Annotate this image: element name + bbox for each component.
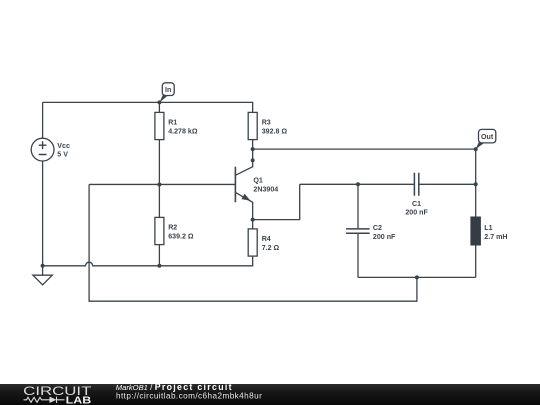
label C1 200 nF xyxy=(405,200,428,217)
wire output rail xyxy=(253,148,476,150)
wire R1 top lead xyxy=(158,102,160,112)
transistor Q1 base bar xyxy=(234,167,236,203)
wire bottom tank rail xyxy=(358,276,476,278)
voltage source V1 Vcc xyxy=(31,138,54,161)
node base-divider junction xyxy=(157,182,161,186)
svg-text:639.2 Ω: 639.2 Ω xyxy=(168,232,194,240)
logo diode triangle xyxy=(50,397,57,403)
svg-text:In: In xyxy=(165,86,171,94)
svg-text:R1: R1 xyxy=(168,118,177,126)
wire Q1 collector pin xyxy=(235,160,252,175)
svg-text:C1: C1 xyxy=(412,200,421,208)
svg-text:5 V: 5 V xyxy=(57,151,68,159)
resistor R4 xyxy=(248,229,257,256)
svg-text:392.8 Ω: 392.8 Ω xyxy=(262,127,288,135)
wire C2 bottom lead xyxy=(357,233,359,277)
node C1 right junction xyxy=(474,182,478,186)
node C2 top junction xyxy=(356,182,360,186)
wire C2 top lead xyxy=(357,184,359,228)
label Vcc 5 V xyxy=(57,142,70,159)
label R2 639.2 Ohm xyxy=(168,223,194,240)
wire Vcc top lead xyxy=(42,102,44,138)
node tank bottom junction xyxy=(415,275,419,279)
wire L1 bottom lead xyxy=(475,245,477,278)
wire R2 bottom lead xyxy=(158,245,160,266)
svg-text:4.278 kΩ: 4.278 kΩ xyxy=(168,127,198,135)
footer bar xyxy=(0,384,540,405)
wire top rail xyxy=(43,102,253,112)
wire C1 right lead xyxy=(419,183,476,185)
label L1 2.7 mH xyxy=(484,224,507,241)
wire Q1 base xyxy=(89,183,235,185)
node In junction xyxy=(157,100,161,104)
svg-text:200 nF: 200 nF xyxy=(405,209,428,217)
node R2 ground junction xyxy=(157,264,161,268)
svg-text:7.2 Ω: 7.2 Ω xyxy=(262,244,280,252)
wire emitter to R4 xyxy=(252,220,254,229)
svg-text:200 nF: 200 nF xyxy=(373,233,396,241)
svg-text:R3: R3 xyxy=(262,118,271,126)
svg-text:Q1: Q1 xyxy=(253,176,263,184)
svg-text:http://circuitlab.com/c6ha2mbk: http://circuitlab.com/c6ha2mbk4h8ur xyxy=(116,392,262,401)
node flag In xyxy=(159,83,174,103)
wire R3 bottom lead xyxy=(252,140,254,161)
wire Out drop to L1 xyxy=(475,149,477,217)
svg-text:L1: L1 xyxy=(484,224,492,232)
wire ground rail with hop over feedback wire xyxy=(43,257,253,266)
ground xyxy=(33,266,52,285)
wire Q1 emitter pin xyxy=(235,192,252,219)
wire feedback loop left and bottom xyxy=(89,184,417,301)
svg-text:C2: C2 xyxy=(373,224,382,232)
resistor R2 xyxy=(155,217,164,244)
node Out flag junction xyxy=(474,147,478,151)
svg-text:R2: R2 xyxy=(168,223,177,231)
label R1 4.278 kOhm xyxy=(168,118,198,135)
label C2 200 nF xyxy=(373,224,396,241)
logo resistor-diode squiggle xyxy=(24,397,65,403)
wire Vcc bottom lead xyxy=(42,161,44,266)
node collector pin junction xyxy=(251,158,255,162)
label R4 7.2 Ohm xyxy=(262,235,280,252)
label R3 392.8 Ohm xyxy=(262,118,288,135)
resistor R3 xyxy=(248,112,257,139)
capacitor C2 xyxy=(346,229,370,233)
node junction dots xyxy=(41,100,478,279)
capacitor C1 xyxy=(414,173,418,196)
inductor L1 xyxy=(471,217,481,245)
svg-text:Vcc: Vcc xyxy=(57,142,70,150)
svg-text:2N3904: 2N3904 xyxy=(253,185,278,193)
wire C1 left lead xyxy=(300,183,414,185)
node flag Out xyxy=(476,129,496,149)
node collector out junction xyxy=(251,147,255,151)
node Vcc ground junction xyxy=(41,264,45,268)
node emitter junction xyxy=(251,218,255,222)
svg-text:R4: R4 xyxy=(262,235,271,243)
wire emitter to C1 branch xyxy=(253,184,300,219)
footer title text xyxy=(116,382,262,401)
svg-text:2.7 mH: 2.7 mH xyxy=(484,233,507,241)
wire R1 bottom to R2 top xyxy=(158,140,160,218)
resistor R1 xyxy=(155,112,164,139)
label Q1 2N3904 xyxy=(253,176,278,193)
svg-text:Out: Out xyxy=(481,133,494,141)
logo CircuitLab wordmark xyxy=(23,385,91,405)
transistor Q1 emitter arrowhead xyxy=(242,194,251,201)
svg-text:MarkOB1 / Project circuit: MarkOB1 / Project circuit xyxy=(116,382,233,392)
svg-text:LAB: LAB xyxy=(66,395,92,405)
